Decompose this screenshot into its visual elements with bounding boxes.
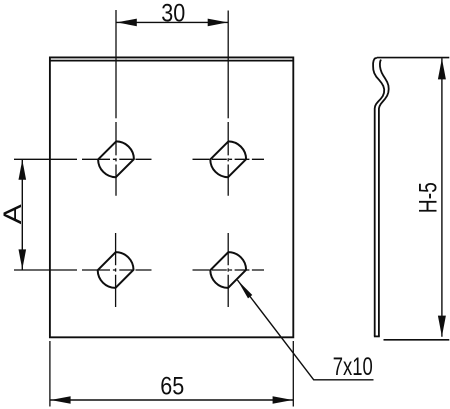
centerline horizontal top-left hole (14, 158, 152, 160)
dimension 65: dimension line (50, 399, 293, 401)
centerline vertical top-right hole (227, 122, 229, 196)
dimension 30: extension line right (227, 11, 229, 119)
plate bent-edge inner line (top) (50, 60, 293, 62)
oblong hole 7x10 top-left (98, 141, 134, 177)
dimension 30: extension line left (115, 10, 117, 118)
dimension 30: arrowhead left (117, 19, 137, 27)
centerline horizontal bottom-left hole (14, 269, 152, 271)
centerline horizontal bottom-right hole (193, 269, 265, 271)
svg-text:A: A (0, 204, 27, 224)
dimension H-5: arrowhead top (438, 58, 446, 79)
dimension A: arrowhead bottom (19, 249, 27, 269)
dimension A: arrowhead top (19, 160, 27, 180)
dimension H-5: arrowhead bottom (438, 316, 446, 337)
oblong hole 7x10 top-right (210, 141, 246, 177)
svg-text:H-5: H-5 (414, 182, 442, 213)
dimension 65: arrowhead right (273, 396, 293, 404)
svg-text:7x10: 7x10 (333, 353, 373, 381)
side view: outer (left) profile line with S-bend (373, 58, 384, 337)
side view: inner (right) profile line with S-bend (379, 60, 389, 337)
leader arrowhead (237, 280, 252, 298)
centerline vertical bottom-left hole (115, 233, 117, 307)
H-5 bottom extension line (384, 339, 450, 341)
dimension 30: dimension line (116, 21, 228, 23)
oblong hole 7x10 bottom-left (98, 252, 134, 288)
svg-text:65: 65 (160, 373, 184, 401)
side view: top edge / H-5 top extension line (377, 57, 449, 59)
dimension A: dimension line (21, 160, 23, 270)
dimension H-5: dimension line (441, 58, 443, 337)
dimension 65: arrowhead left (51, 396, 71, 404)
side view: bottom end cap (374, 335, 380, 337)
centerline vertical bottom-right hole (227, 233, 229, 307)
oblong hole 7x10 bottom-right (210, 252, 246, 288)
plate outline (front view) (50, 57, 293, 337)
dimension 65: extension line left (49, 341, 51, 407)
dimension 30: arrowhead right (208, 19, 228, 27)
centerline vertical top-left hole (115, 122, 117, 196)
dimension 65: extension line right (292, 341, 294, 407)
centerline horizontal top-right hole (193, 158, 265, 160)
svg-text:30: 30 (161, 0, 185, 28)
leader line to hole (7x10) (237, 280, 373, 380)
